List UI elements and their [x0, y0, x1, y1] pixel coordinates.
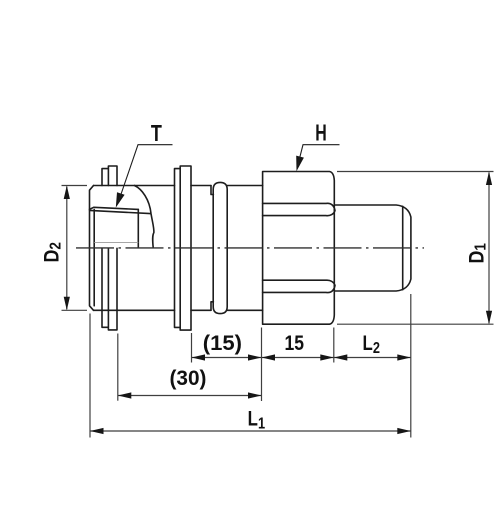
row2 left extension: [117, 334, 119, 401]
groove top: [211, 186, 213, 195]
svg-text:L: L: [363, 332, 374, 355]
svg-text:1: 1: [258, 415, 265, 433]
row3 left extension: [89, 314, 91, 438]
hex upper facet lines: [263, 203, 335, 215]
socket body left outline: [90, 186, 94, 311]
flange strip A: [175, 169, 181, 328]
H leader arrow: [296, 156, 304, 172]
body bottom line: [94, 309, 175, 311]
retaining ring lower section lines: [102, 248, 117, 330]
svg-text:15: 15: [285, 332, 305, 355]
thread minor faint line: [94, 241, 138, 243]
T leader line: [118, 145, 173, 203]
centerline: [76, 247, 424, 249]
D1 dimension line: [488, 173, 490, 324]
body lines capsule to hex: [227, 186, 262, 311]
svg-text:L: L: [248, 408, 259, 431]
D1 arrows: [486, 172, 492, 186]
label L2: [363, 332, 381, 357]
thread bore right edge: [137, 209, 139, 247]
row2 arrows: [118, 392, 132, 398]
svg-text:2: 2: [47, 242, 64, 250]
svg-text:T: T: [151, 120, 162, 146]
T leader arrow: [116, 192, 125, 207]
label D2 rotated: [40, 242, 65, 262]
svg-text:H: H: [315, 120, 327, 146]
D2 extension lines: [62, 186, 88, 311]
H leader line: [298, 145, 340, 166]
thread taper line B: [90, 210, 151, 213]
row1 extension lines: [192, 294, 411, 438]
svg-text:(15): (15): [203, 332, 242, 355]
body lines flange to groove: [191, 186, 211, 311]
svg-text:D: D: [40, 250, 64, 263]
svg-text:1: 1: [473, 243, 490, 251]
D2 dimension line: [66, 187, 68, 310]
groove bottom: [211, 302, 213, 311]
o-ring capsule: [213, 182, 227, 313]
thread taper line A: [90, 207, 139, 209]
svg-text:D: D: [465, 251, 489, 264]
L1 arrows: [90, 428, 104, 434]
D2 arrows: [64, 186, 70, 200]
retaining ring top tabs: [102, 166, 117, 186]
row3 dimension line L1: [90, 430, 411, 432]
row1 dimension line: [192, 357, 411, 359]
svg-text:2: 2: [373, 340, 380, 358]
label L1: [248, 408, 266, 433]
D1 extension lines: [337, 172, 494, 325]
body top line: [94, 185, 175, 187]
bore inner left edge: [93, 210, 95, 306]
label D1 rotated: [465, 243, 490, 263]
lead-in cone and break line: [135, 186, 154, 248]
male thread end outline: [334, 205, 411, 291]
flange strip B: [180, 166, 191, 330]
hex lower facet lines: [263, 280, 335, 292]
hex nut outline: [263, 172, 335, 325]
thread runout line: [402, 206, 404, 289]
row2 dimension line: [118, 395, 262, 397]
row1 arrows: [192, 354, 206, 360]
svg-text:(30): (30): [170, 367, 207, 390]
